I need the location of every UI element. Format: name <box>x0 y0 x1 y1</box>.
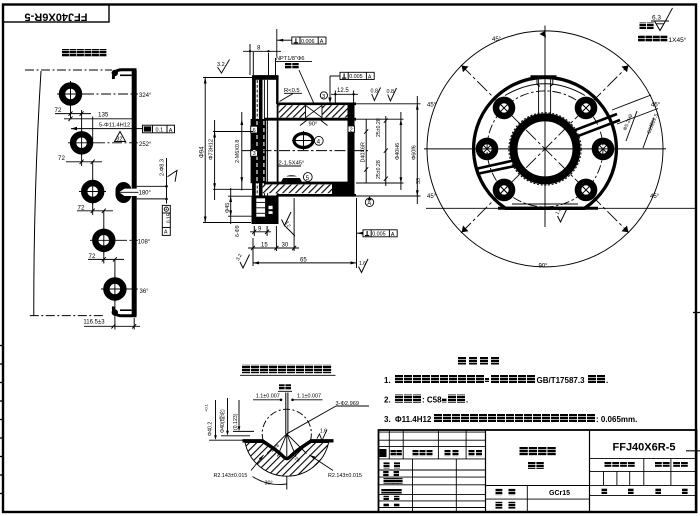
svg-text:Φ40.2: Φ40.2 <box>208 422 214 436</box>
bore thread circle (dashed) <box>509 113 581 185</box>
svg-text:0.8: 0.8 <box>371 89 379 95</box>
gothic arch raceway profile (thick) <box>243 441 334 459</box>
svg-text:3.: 3. <box>384 415 391 424</box>
return tube slot lower-left <box>476 160 516 169</box>
svg-text:Φ60f6: Φ60f6 <box>411 145 417 160</box>
bottom boss <box>252 196 279 225</box>
bottom angle dim <box>253 477 287 485</box>
dim 72 (hole4-hole5) <box>88 250 124 277</box>
top hook <box>113 70 136 79</box>
dim Φ40H6 <box>400 112 402 190</box>
dim 135 <box>64 117 134 121</box>
svg-text:GB/T17587.3: GB/T17587.3 <box>537 376 586 385</box>
svg-text:36°: 36° <box>140 289 150 295</box>
flange front face thick <box>253 76 256 224</box>
svg-text:Φ73H12: Φ73H12 <box>209 139 215 160</box>
dim Φ60f6 <box>416 96 418 204</box>
svg-text:A: A <box>320 39 324 45</box>
slot face lines to 180° label <box>137 185 167 187</box>
rotated frame ◎0.15 A <box>162 205 172 235</box>
section plane double line <box>285 393 287 435</box>
datum frame ⊥0.005 A (bottom right) <box>363 230 397 238</box>
svg-text:30°: 30° <box>265 481 273 487</box>
vertical centerline <box>286 434 288 490</box>
flange top cap <box>252 76 279 80</box>
middle: part name 滚珠螺母 / 系列 <box>520 447 528 455</box>
图样标记 重量 比例 <box>605 462 612 467</box>
title repeat box top-left <box>3 5 109 23</box>
svg-text:Φ40(理论): Φ40(理论) <box>218 409 226 433</box>
dim Φ94 (flange OD) <box>203 78 252 223</box>
right section verticals <box>604 458 671 485</box>
svg-text:25±0.28: 25±0.28 <box>376 160 382 179</box>
dim 15 / 30 <box>248 198 299 266</box>
body right end wall <box>348 103 355 196</box>
hatch region below raceway <box>245 443 329 477</box>
svg-text:0.006: 0.006 <box>301 39 315 45</box>
flange back face bottom <box>276 195 278 223</box>
roughness flag at boss <box>282 212 292 226</box>
return slot on edge at 180° <box>116 182 139 203</box>
radial hole 4 (108°) <box>90 227 117 253</box>
hole1 centerline to edge <box>84 93 138 95</box>
svg-text:R2.143±0.015: R2.143±0.015 <box>214 473 248 479</box>
svg-text:1.6: 1.6 <box>359 261 366 267</box>
roughness triangle 32 <box>115 132 126 142</box>
dim circle arrowheads <box>462 31 629 232</box>
svg-text:GCr15: GCr15 <box>549 490 570 497</box>
main cylinder edge (thick line) <box>132 71 137 316</box>
svg-text:0.005: 0.005 <box>349 74 363 80</box>
svg-text:6.3: 6.3 <box>652 15 661 22</box>
svg-text:72: 72 <box>55 107 62 114</box>
body top hatch band <box>279 105 306 117</box>
svg-text:: 0.065mm.: : 0.065mm. <box>596 415 637 424</box>
slot dim extension lines <box>612 95 651 110</box>
left table verticals <box>389 430 466 512</box>
bolt hole top-left <box>496 100 512 116</box>
svg-text:A: A <box>368 74 372 80</box>
top flat + keyway slot <box>531 75 557 78</box>
svg-text:65: 65 <box>300 257 307 263</box>
svg-text:33: 33 <box>416 178 422 184</box>
roughness flag at bottom flat <box>558 209 568 223</box>
dim 2-M6X0.8 <box>241 112 243 191</box>
dimension circle (45° sectors) <box>427 31 663 267</box>
dim Φ45 (boss) <box>228 188 252 224</box>
flange back face top <box>276 76 278 104</box>
chamfer arc top <box>505 84 585 96</box>
flange mid solid section <box>251 119 267 183</box>
svg-text:Φ45: Φ45 <box>225 203 231 213</box>
svg-text:: C58: : C58 <box>422 396 442 405</box>
dim 116.5±3 bottom <box>111 299 136 330</box>
bore top line <box>265 118 357 121</box>
svg-text:72: 72 <box>89 253 96 260</box>
数量 <box>496 502 503 509</box>
bolt hole top-right <box>578 100 594 116</box>
svg-text:6-Φ9: 6-Φ9 <box>235 225 241 237</box>
requirement line 1 <box>384 375 608 385</box>
dim 72 (hole2-hole3) <box>66 153 102 179</box>
requirement line 3 <box>384 414 637 424</box>
svg-text:A: A <box>391 232 395 238</box>
svg-text:2-Φ8.3: 2-Φ8.3 <box>160 159 166 176</box>
flange bore lines <box>263 80 265 218</box>
svg-text:15: 15 <box>261 243 268 249</box>
left table horizontals <box>379 432 486 507</box>
svg-text:116.5±3: 116.5±3 <box>83 320 105 326</box>
svg-text:3-Φ2.969: 3-Φ2.969 <box>336 401 359 407</box>
dim 9 <box>250 226 271 236</box>
radial hole 1 (324°) <box>57 81 84 107</box>
svg-text:0.15: 0.15 <box>167 213 173 223</box>
svg-text:Φ94: Φ94 <box>199 146 205 158</box>
fold ticks left edge <box>0 346 4 494</box>
body top wall <box>278 103 356 106</box>
bottom hook <box>113 307 136 316</box>
leader 3-Φ2.969 <box>287 406 336 434</box>
svg-text:45°: 45° <box>651 103 661 109</box>
svg-text:108°: 108° <box>138 240 151 246</box>
svg-text:1X45°: 1X45° <box>669 36 687 44</box>
svg-text:45°: 45° <box>427 194 437 200</box>
roughness 0.8 x2 <box>372 88 397 102</box>
svg-text:30: 30 <box>282 243 289 249</box>
svg-text:45°: 45° <box>650 194 660 200</box>
svg-text:1.6: 1.6 <box>320 429 327 435</box>
dim 72 (hole1-hole2) <box>55 104 91 131</box>
body bottom hatch band <box>263 185 333 194</box>
datum frame ⊥0.005 A (mid) <box>340 72 374 80</box>
tag 2 on right wall <box>348 126 354 133</box>
bottom flat <box>498 207 598 210</box>
dim Φ73H12 <box>213 120 253 200</box>
bolt circle <box>487 91 603 207</box>
ball 4 <box>294 134 313 148</box>
diagonal centerlines <box>461 65 629 233</box>
bottom flat extension line <box>426 207 696 209</box>
row 批准 <box>384 503 389 508</box>
svg-text:45°: 45° <box>427 103 437 109</box>
left development curve <box>34 71 41 316</box>
svg-text:324°: 324° <box>139 93 152 99</box>
outer box <box>379 430 697 512</box>
bolt hole bottom-right <box>578 182 594 198</box>
svg-text:A: A <box>164 230 168 236</box>
circled 4 <box>314 136 323 145</box>
svg-text:12.5: 12.5 <box>337 88 349 94</box>
radial hole 5 (36°) <box>101 276 128 302</box>
roughness 1.6 on raceway <box>317 430 327 441</box>
dim 8 top <box>243 44 281 75</box>
bolt hole bottom-left <box>496 182 512 198</box>
svg-text:3: 3 <box>322 94 325 100</box>
svg-text:0.005: 0.005 <box>372 232 386 238</box>
svg-text:.: . <box>606 376 608 385</box>
svg-text:180°: 180° <box>139 191 152 197</box>
row 标准化审查 <box>381 489 386 494</box>
roughness 3.2 top-left of section <box>218 60 230 74</box>
row 工艺会签 <box>384 478 390 484</box>
oil hole <box>306 105 323 117</box>
svg-text:0.8: 0.8 <box>387 89 395 95</box>
dim 72 (hole3-hole4) <box>77 202 113 229</box>
bore centerline <box>242 150 368 152</box>
circled 3 <box>320 92 327 99</box>
svg-text:5: 5 <box>306 175 310 182</box>
datum frame ⊥0.006 A (top) <box>292 37 326 45</box>
body bottom wall <box>278 194 356 197</box>
svg-text:72: 72 <box>78 204 85 211</box>
circled 5 <box>303 173 312 182</box>
svg-text:2.: 2. <box>384 396 391 405</box>
right section horizontals <box>590 458 697 495</box>
svg-text:72: 72 <box>58 155 65 162</box>
radial lines inside ball <box>267 434 307 457</box>
svg-text:90°: 90° <box>309 122 318 128</box>
svg-text:1.1±0.007: 1.1±0.007 <box>256 394 280 400</box>
dim 25±0.28 x2 <box>385 116 387 186</box>
svg-text:3: 3 <box>253 151 256 157</box>
svg-text:Φ40H6: Φ40H6 <box>395 143 401 160</box>
svg-text:1.: 1. <box>384 376 391 385</box>
svg-text:8: 8 <box>257 45 261 52</box>
view title 外表面展开图 <box>62 49 106 57</box>
svg-text:252°: 252° <box>139 142 152 148</box>
dim 65 <box>253 198 357 268</box>
bolt hole right <box>595 141 611 157</box>
dim 12.5 <box>331 91 358 103</box>
ball circuit tag 6 <box>251 126 258 134</box>
svg-text:R2.143±0.015: R2.143±0.015 <box>328 473 362 479</box>
radial hole 2 (252°) <box>68 130 95 156</box>
bore bottom line <box>265 182 352 185</box>
return tube slot upper-right <box>571 114 617 132</box>
radial hole 3 (180°) <box>79 117 106 205</box>
svg-text:4: 4 <box>317 139 321 146</box>
svg-text:90°: 90° <box>539 263 549 269</box>
position frame ◎0.1 A <box>143 125 175 134</box>
svg-text:0.1: 0.1 <box>156 128 164 134</box>
svg-text:3.2: 3.2 <box>217 62 225 68</box>
ball circle (phantom) <box>262 409 311 458</box>
svg-text:32: 32 <box>116 136 122 142</box>
ball circuit tag 3 <box>251 150 258 158</box>
svg-text:25±0.28: 25±0.28 <box>376 118 382 137</box>
svg-text:5-Φ11.4H12: 5-Φ11.4H12 <box>99 122 130 128</box>
svg-text:+0.1: +0.1 <box>204 403 209 412</box>
材料 / GCr15 <box>496 488 503 495</box>
roughness flags around 65 dim <box>240 255 250 269</box>
bottom extension line <box>30 315 104 317</box>
centerlines <box>424 148 666 150</box>
svg-text:1.1±0.007: 1.1±0.007 <box>297 394 321 400</box>
svg-text:FFJ40X6R-5: FFJ40X6R-5 <box>25 11 88 23</box>
ball 5 (half) <box>281 175 302 183</box>
共 张 第 张 <box>602 488 608 494</box>
bore circle thick <box>514 117 577 180</box>
flange outer circle <box>474 77 617 208</box>
fold tick right edge <box>693 312 700 314</box>
middle lower cells <box>486 485 590 487</box>
svg-text:6: 6 <box>253 128 256 134</box>
svg-text:FFJ40X6R-5: FFJ40X6R-5 <box>613 442 676 454</box>
svg-text:2-M6X0.8: 2-M6X0.8 <box>235 140 241 163</box>
dim D40X6R (bore raceway) <box>365 119 367 183</box>
right side extension lines <box>356 104 421 196</box>
flange bottom cap <box>252 218 279 225</box>
row 设计 <box>384 462 390 468</box>
heading 技术要求 <box>458 357 466 365</box>
header row cells <box>380 449 387 457</box>
bolt hole left <box>479 141 495 157</box>
flange inner black column <box>259 80 263 218</box>
row 描图 <box>383 471 388 476</box>
svg-text:D40X6R: D40X6R <box>360 142 366 162</box>
svg-text:.: . <box>466 396 468 405</box>
top centerline <box>25 69 112 71</box>
svg-text:2: 2 <box>350 127 353 133</box>
datum A symbol <box>367 196 371 200</box>
main verticals <box>485 430 487 512</box>
svg-text:A: A <box>367 201 371 207</box>
row 审核 <box>384 496 389 501</box>
放大 subtitle <box>279 384 285 390</box>
requirement line 2 <box>384 395 468 405</box>
flange outline <box>253 76 278 223</box>
svg-text:135: 135 <box>98 112 109 119</box>
view title 滚珠螺母滚道法向剖面 <box>240 365 336 376</box>
flange hidden line <box>256 80 258 217</box>
chamfer line above bottom flat <box>512 203 578 205</box>
svg-text:A: A <box>169 128 173 134</box>
svg-text:45°: 45° <box>492 37 502 43</box>
svg-text:Φ11.4H12: Φ11.4H12 <box>395 415 432 424</box>
